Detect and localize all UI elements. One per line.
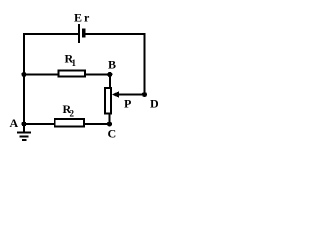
resistor R1	[59, 71, 86, 77]
node C junction	[107, 121, 112, 126]
wire middle-left (to R1)	[24, 74, 59, 76]
svg-text:2: 2	[70, 109, 75, 119]
wire bottom (A to R2)	[23, 123, 55, 125]
node B junction	[107, 72, 112, 77]
svg-text:B: B	[108, 58, 116, 72]
svg-text:1: 1	[72, 58, 77, 68]
wire left vertical	[23, 33, 25, 125]
svg-text:C: C	[108, 127, 117, 141]
svg-text:D: D	[150, 97, 158, 111]
node A junction	[21, 121, 26, 126]
node D junction	[142, 92, 147, 97]
svg-text:A: A	[10, 116, 19, 130]
rheostat (potentiometer body) between B and C	[105, 88, 111, 114]
svg-text:P: P	[124, 97, 131, 111]
wire top-left (battery left lead)	[23, 33, 78, 35]
wire bottom (R2 to C)	[85, 123, 110, 125]
wire B down to rheostat	[109, 75, 111, 89]
wire middle-right (R1 to B)	[85, 74, 111, 76]
svg-text:E: E	[74, 11, 82, 25]
ground symbol below A	[23, 124, 25, 132]
node junction on left wire at R1 branch	[21, 72, 26, 77]
battery E r : long plate	[78, 24, 80, 43]
wire right vertical	[144, 33, 146, 95]
wiper arrow P (pointing left at rheostat)	[112, 91, 119, 98]
battery E r : short thick plate	[82, 29, 86, 38]
resistor R2	[55, 119, 84, 127]
wire rheostat down to C	[109, 114, 111, 124]
wire top-right (battery right lead)	[86, 33, 146, 35]
svg-text:r: r	[84, 11, 90, 25]
